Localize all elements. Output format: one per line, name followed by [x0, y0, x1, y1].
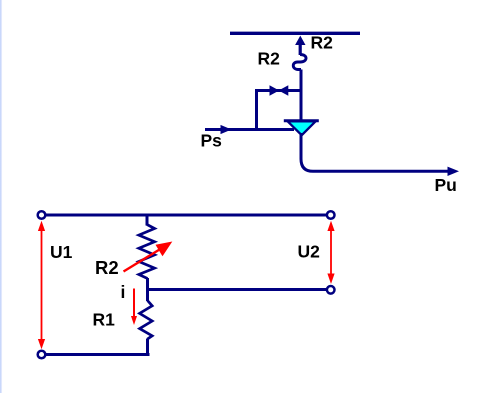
terminal top-left: [38, 211, 46, 219]
svg-text:R2: R2: [311, 33, 334, 53]
arrow into rail (restrictor R2 flow arrow): [295, 36, 305, 55]
current arrow i (red, down): [131, 289, 137, 326]
top wire: [45, 214, 327, 217]
wire: bowtie branch horizontal: [257, 89, 302, 92]
wire R1 to bottom wire: [146, 339, 149, 355]
terminal bottom-left: [38, 351, 46, 359]
svg-text:Ps: Ps: [201, 131, 223, 151]
Pu output arrowhead: [448, 167, 460, 176]
page left border strip: [0, 0, 2, 393]
Ps input wire: [205, 128, 294, 131]
nozzle top bar: [284, 119, 319, 122]
svg-text:R1: R1: [93, 309, 116, 329]
wire middle node to R1: [146, 288, 149, 301]
resistor R1 zigzag: [140, 301, 153, 340]
svg-text:Pu: Pu: [435, 175, 457, 195]
wire: bowtie branch vertical down to Ps line: [255, 89, 258, 131]
Ps flow arrowhead: [221, 125, 232, 134]
check-valve bowtie symbol: [270, 85, 280, 95]
wire: squiggle down to nozzle: [300, 70, 303, 122]
resistor R2 zigzag (variable): [139, 225, 155, 279]
nozzle triangle (amplifier): [288, 121, 316, 135]
U1 measurement arrow (red double): [38, 221, 45, 350]
svg-text:U1: U1: [50, 242, 73, 262]
bottom wire: [45, 353, 150, 356]
wire R2 to middle node: [146, 278, 149, 291]
svg-text:R2: R2: [258, 49, 281, 69]
restrictor R2 squiggle (spring symbol): [293, 54, 306, 69]
terminal mid-right: [327, 286, 335, 294]
middle wire: [148, 288, 327, 291]
output wire with rounded corner to Pu: [301, 133, 449, 171]
U2 measurement arrow (red double): [327, 221, 334, 284]
supply rail (top bus line): [230, 32, 360, 35]
red variable arrow through R2: [124, 242, 173, 272]
svg-text:R2: R2: [95, 257, 119, 278]
svg-text:i: i: [121, 282, 126, 302]
svg-text:U2: U2: [298, 241, 321, 261]
terminal top-right: [327, 211, 335, 219]
wire stub top of R2: [146, 214, 149, 226]
